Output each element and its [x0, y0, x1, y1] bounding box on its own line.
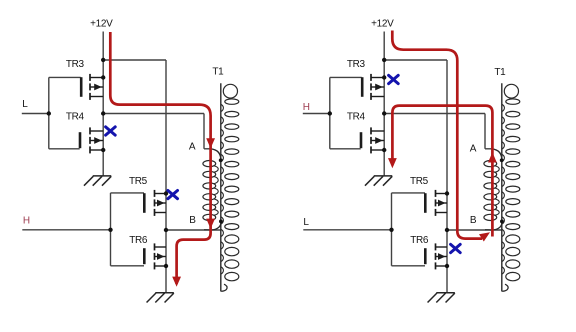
- label node B (right): [470, 215, 477, 226]
- node dot TR5 drain (right): [445, 191, 449, 195]
- svg-text:+12V: +12V: [90, 19, 113, 30]
- transformer T1 core line (right): [501, 83, 503, 291]
- ground under TR6 (left): [147, 293, 174, 303]
- wire node B to primary (right): [447, 229, 502, 231]
- label node A (left): [189, 141, 196, 152]
- svg-text:+12V: +12V: [371, 19, 394, 30]
- wire lower gate splitter (left): [111, 193, 145, 266]
- label input H (left): [23, 216, 30, 227]
- svg-text:T1: T1: [494, 67, 506, 78]
- red arrow at node B (left): [206, 219, 215, 229]
- label input L (left): [22, 99, 28, 110]
- blue X mark TR6 off (right): [451, 244, 461, 252]
- wire upper input (left): [22, 113, 49, 115]
- node dot TR5 drain (left): [164, 191, 168, 195]
- red arrow to ground at TR6 (left): [172, 277, 181, 287]
- wire +12V supply vertical (left): [102, 32, 104, 176]
- svg-text:A: A: [189, 141, 196, 152]
- red arrow at node A (right): [488, 152, 497, 162]
- label TR6 (left): [129, 235, 148, 246]
- wire +12V to TR5 drain horizontal (left): [103, 59, 166, 61]
- svg-text:TR5: TR5: [410, 176, 429, 187]
- node dot midpoint A tee (left): [101, 111, 105, 115]
- label node B (left): [189, 215, 196, 226]
- red arrow at node A (left): [206, 138, 215, 148]
- svg-text:L: L: [303, 217, 309, 228]
- node dot TR6 source (left): [164, 264, 168, 268]
- svg-text:H: H: [303, 102, 310, 113]
- red arrow to ground at TR4 (right): [388, 158, 397, 168]
- node dot +12V tee (left): [101, 58, 105, 62]
- transformer T1 primary winding (right): [484, 149, 502, 230]
- red current path right part1 (+12V down to TR5 and into node B): [392, 31, 482, 239]
- ground under TR6 (right): [428, 293, 455, 303]
- label T1 (right): [494, 67, 506, 78]
- svg-text:TR4: TR4: [347, 111, 366, 122]
- node dot +12V tee (right): [382, 58, 386, 62]
- red current path right part2 (primary B to A, across to TR4, to ground): [392, 106, 492, 237]
- node dot primary bottom on core (right): [500, 220, 504, 224]
- transformer T1 primary winding (left): [203, 149, 221, 230]
- svg-text:H: H: [23, 216, 30, 227]
- node dot upper input (right): [328, 111, 332, 115]
- transistor TR6 (right): [425, 243, 447, 269]
- node dot midpoint A tee (right): [382, 111, 386, 115]
- svg-text:TR3: TR3: [347, 59, 366, 70]
- svg-text:T1: T1: [212, 67, 224, 78]
- svg-text:A: A: [470, 144, 477, 155]
- svg-text:TR6: TR6: [129, 235, 148, 246]
- wire lower input (right): [303, 229, 391, 231]
- ground under TR4 (right): [365, 176, 392, 186]
- label TR4 (left): [66, 111, 85, 122]
- transformer T1 secondary winding (right): [502, 84, 520, 291]
- ground under TR4 (left): [84, 176, 111, 186]
- red current path left (+12V through TR3 into primary A-B and TR6 to ground): [110, 32, 210, 284]
- blue X mark TR4 off (left): [106, 127, 116, 135]
- blue X mark TR3 off (right): [389, 75, 399, 83]
- wire node B to primary (left): [166, 229, 221, 231]
- transistor TR4 (left): [80, 127, 103, 153]
- label node A (right): [470, 144, 477, 155]
- svg-text:B: B: [189, 215, 196, 226]
- node dot TR6 source (right): [445, 264, 449, 268]
- wire upper gate splitter (right): [330, 77, 362, 148]
- node dot TR4 source (right): [382, 148, 386, 152]
- label +12V (right): [371, 19, 394, 30]
- node dot TR3 drain (left): [101, 75, 105, 79]
- node dot upper input (left): [47, 111, 51, 115]
- wire TR5/TR6 vertical (right): [446, 60, 448, 292]
- node dot midpoint B tee (right): [445, 228, 449, 232]
- node dot primary top on core (left): [219, 158, 223, 162]
- label TR4 (right): [347, 111, 366, 122]
- wire +12V to TR5 drain horizontal (right): [384, 59, 447, 61]
- label TR5 (right): [410, 176, 429, 187]
- transistor TR6 (left): [144, 243, 166, 269]
- label input L (right): [303, 217, 309, 228]
- wire TR5/TR6 vertical (left): [165, 60, 167, 292]
- wire midpoint to node A (right): [384, 114, 491, 149]
- node dot TR4 source (left): [101, 148, 105, 152]
- transformer T1 core line (left): [220, 83, 222, 291]
- wire upper input (right): [303, 113, 330, 115]
- label T1 (left): [212, 67, 224, 78]
- wire midpoint to node A (left): [103, 114, 210, 149]
- svg-text:TR4: TR4: [66, 111, 85, 122]
- wire lower gate splitter (right): [392, 193, 426, 266]
- red arrow into node B (right): [479, 232, 490, 241]
- node dot midpoint B tee (left): [164, 228, 168, 232]
- node dot lower input (left): [108, 228, 112, 232]
- wire lower input (left): [22, 229, 110, 231]
- transistor TR4 (right): [361, 127, 384, 153]
- label TR3 (right): [347, 59, 366, 70]
- label +12V (left): [90, 19, 113, 30]
- svg-text:L: L: [22, 99, 28, 110]
- transistor TR5 (left): [144, 190, 166, 216]
- node dot primary bottom on core (left): [219, 220, 223, 224]
- blue X mark TR5 off (left): [168, 191, 178, 199]
- svg-text:TR6: TR6: [410, 235, 429, 246]
- transformer T1 secondary winding (left): [221, 84, 239, 291]
- label TR5 (left): [129, 176, 148, 187]
- label input H (right): [303, 102, 310, 113]
- node dot TR3 drain (right): [382, 75, 386, 79]
- svg-text:TR5: TR5: [129, 176, 148, 187]
- svg-text:B: B: [470, 215, 477, 226]
- transistor TR3 (left): [81, 74, 103, 100]
- transistor TR3 (right): [362, 74, 384, 100]
- label TR3 (left): [66, 59, 85, 70]
- label TR6 (right): [410, 235, 429, 246]
- svg-text:TR3: TR3: [66, 59, 85, 70]
- node dot primary top on core (right): [500, 158, 504, 162]
- wire +12V supply vertical (right): [383, 32, 385, 176]
- wire upper gate splitter (left): [49, 77, 81, 148]
- node dot lower input (right): [389, 228, 393, 232]
- transistor TR5 (right): [425, 190, 447, 216]
